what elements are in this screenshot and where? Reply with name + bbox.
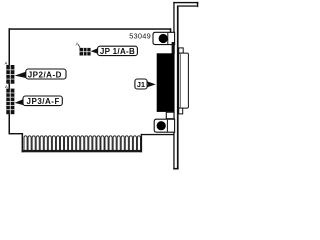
- connector J1 shell inner edge: [179, 54, 182, 107]
- connector J1 bottom jackscrew housing: [154, 119, 174, 132]
- jumper JP3 block: [6, 89, 14, 115]
- jumper JP1 block: [80, 48, 91, 56]
- label JP2/A-D: [15, 69, 66, 79]
- label JP3/A-F: [15, 96, 63, 106]
- connector J1 shell body: [179, 53, 189, 108]
- wire card bottom step-down: [22, 133, 24, 152]
- connector J1 top jackscrew: [159, 34, 168, 43]
- svg-text:JP2/A-D: JP2/A-D: [28, 70, 62, 79]
- connector J1 shell top tab: [179, 48, 184, 53]
- connector J1 shell bottom tab: [179, 108, 183, 114]
- svg-text:J1: J1: [137, 80, 145, 89]
- svg-text:JP3/A-F: JP3/A-F: [27, 97, 60, 106]
- wire card left edge: [9, 28, 11, 134]
- connector J1 top mounting ear: [172, 42, 175, 54]
- svg-text:53049: 53049: [129, 31, 151, 40]
- svg-text:A: A: [5, 84, 8, 89]
- edge connector fingers: [24, 136, 141, 151]
- bracket top flange: [173, 2, 198, 7]
- edge connector baseline: [22, 150, 142, 152]
- connector J1 bottom jackscrew: [157, 121, 166, 130]
- connector J1 top jackscrew housing: [153, 32, 175, 44]
- bracket vertical strip: [173, 2, 178, 170]
- label JP1/A-B: [91, 46, 138, 56]
- jumper JP2 block: [6, 65, 14, 84]
- wire card top edge: [9, 28, 172, 30]
- wire card right edge: [170, 28, 172, 35]
- pin A mark of JP1: [76, 42, 81, 49]
- wire card bottom step-up: [141, 134, 142, 152]
- wire card bottom-left edge: [9, 133, 23, 134]
- svg-text:JP 1/A-B: JP 1/A-B: [100, 47, 135, 56]
- svg-text:A: A: [5, 61, 8, 66]
- label J1: [135, 79, 156, 89]
- connector J1 body: [157, 53, 174, 112]
- wire card bottom-right edge: [141, 134, 174, 135]
- connector J1 bottom mounting ear: [166, 112, 174, 119]
